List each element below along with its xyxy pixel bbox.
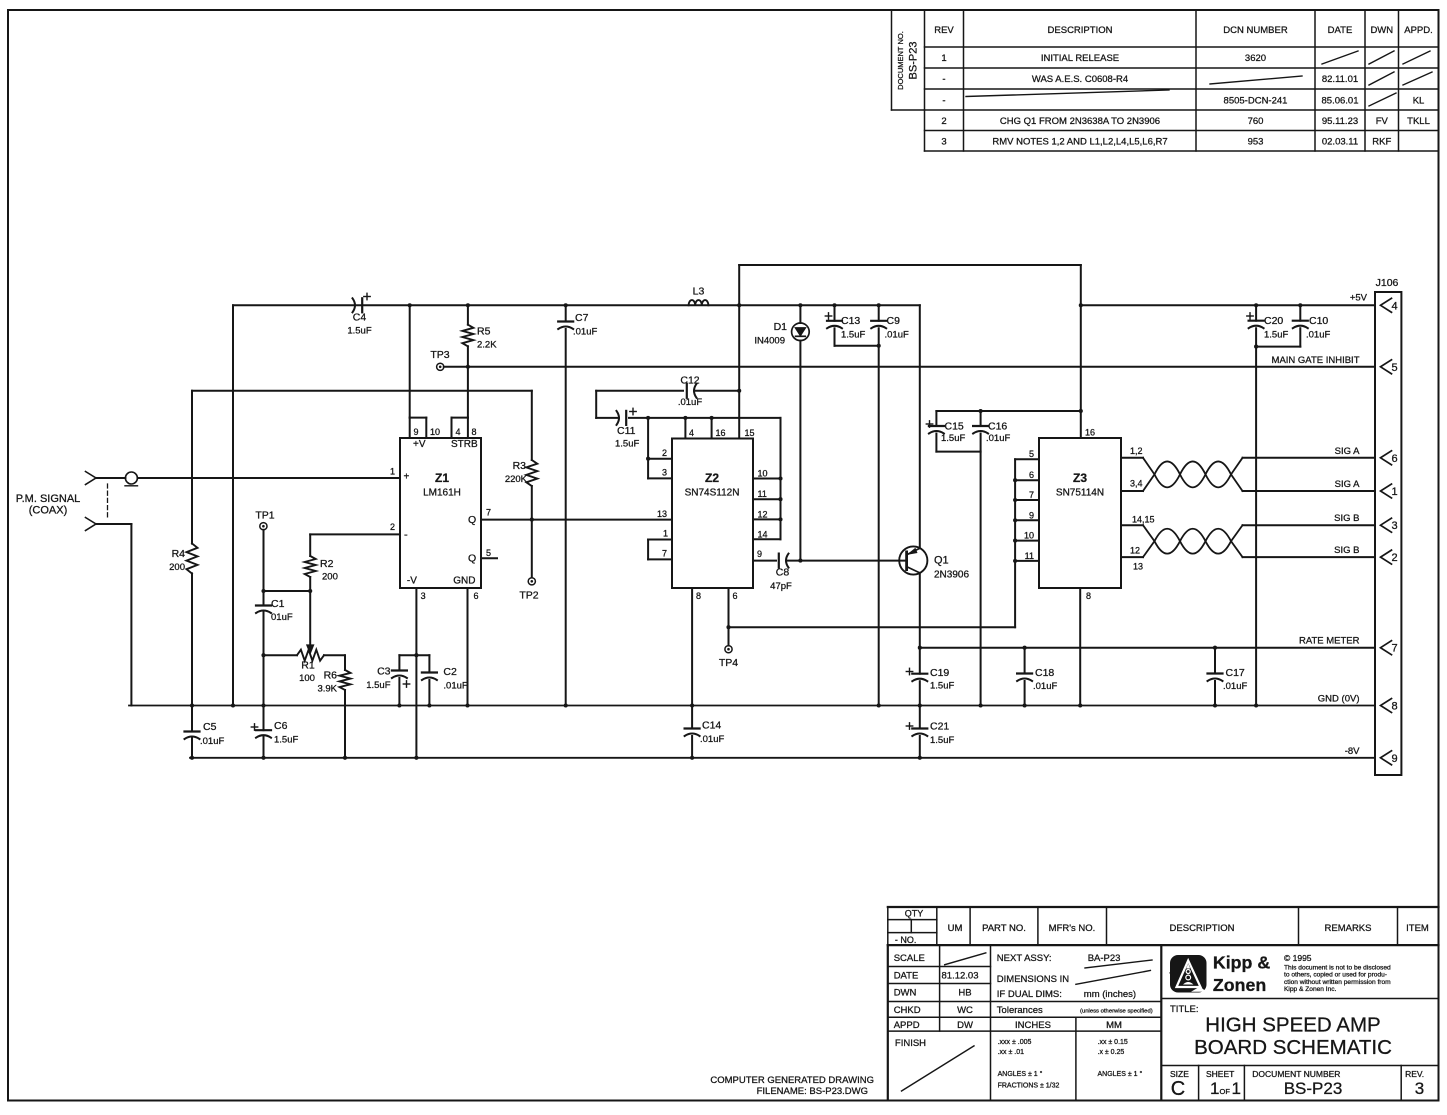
svg-text:2: 2 [390,522,395,532]
svg-text:8505-DCN-241: 8505-DCN-241 [1224,96,1288,107]
svg-text:TP1: TP1 [255,510,274,522]
svg-text:STRB: STRB [451,439,478,450]
svg-text:C5: C5 [203,721,217,733]
svg-text:-: - [942,74,945,85]
svg-text:200: 200 [322,572,338,583]
svg-text:4: 4 [1391,300,1397,312]
svg-text:2: 2 [1391,552,1397,564]
svg-text:Z2: Z2 [705,471,719,485]
svg-text:1: 1 [1210,1079,1219,1098]
svg-text:2N3906: 2N3906 [934,570,969,581]
svg-text:4: 4 [689,428,694,438]
svg-text:14,15: 14,15 [1132,515,1155,525]
svg-text:12: 12 [1130,545,1140,555]
svg-text:Zonen: Zonen [1213,975,1266,995]
svg-text:WC: WC [957,1005,973,1016]
svg-text:2: 2 [941,116,946,127]
svg-text:C: C [1171,1078,1185,1100]
svg-text:4: 4 [456,427,461,437]
svg-text:- NO.: - NO. [895,935,917,945]
svg-text:C1: C1 [271,598,285,610]
svg-text:760: 760 [1248,116,1264,127]
svg-text:1.5uF: 1.5uF [841,330,865,341]
svg-text:RKF: RKF [1372,137,1391,148]
svg-text:C3: C3 [377,666,391,678]
svg-text:1.5uF: 1.5uF [615,439,639,450]
svg-text:TITLE:: TITLE: [1170,1004,1199,1015]
svg-text:3620: 3620 [1245,53,1266,64]
svg-text:ANGLES ± 1 °: ANGLES ± 1 ° [1098,1070,1143,1078]
svg-text:.x ± 0.25: .x ± 0.25 [1098,1049,1125,1056]
svg-text:SIG A: SIG A [1335,446,1360,457]
svg-text:SIG B: SIG B [1334,545,1359,556]
svg-text:9: 9 [1391,753,1397,765]
svg-text:1: 1 [941,53,946,64]
svg-text:7: 7 [662,549,667,559]
svg-text:9: 9 [757,549,762,559]
svg-text:OF: OF [1220,1087,1231,1096]
svg-text:APPD: APPD [894,1020,920,1031]
svg-text:DWN: DWN [894,988,917,999]
svg-text:953: 953 [1248,137,1264,148]
svg-text:SCALE: SCALE [894,953,925,964]
svg-text:16: 16 [716,428,726,438]
svg-text:1.5uF: 1.5uF [274,735,298,746]
svg-text:95.11.23: 95.11.23 [1322,116,1358,127]
svg-text:RMV NOTES 1,2 AND L1,L2,L4,L5,: RMV NOTES 1,2 AND L1,L2,L4,L5,L6,R7 [992,137,1167,148]
svg-text:14: 14 [758,530,768,540]
svg-text:REMARKS: REMARKS [1325,923,1372,934]
svg-text:Z1: Z1 [435,471,449,485]
svg-text:RATE METER: RATE METER [1299,636,1360,647]
svg-text:9: 9 [414,427,419,437]
svg-text:REV: REV [934,25,954,36]
svg-text:(COAX): (COAX) [29,505,68,517]
svg-text:C7: C7 [575,312,589,324]
svg-text:C20: C20 [1264,315,1283,327]
svg-text:TP2: TP2 [519,590,538,602]
svg-text:C6: C6 [274,720,288,732]
svg-text:100: 100 [299,673,315,684]
svg-text:-: - [942,96,945,107]
svg-text:This document is not to be dis: This document is not to be disclosed [1284,964,1391,971]
svg-text:.01uF: .01uF [986,433,1010,444]
svg-text:Q: Q [468,514,476,526]
svg-text:.01uF: .01uF [200,736,224,747]
svg-text:C18: C18 [1035,667,1054,679]
svg-text:+V: +V [413,439,426,450]
svg-text:220K: 220K [505,474,528,485]
svg-text:3: 3 [1415,1079,1424,1098]
svg-text:Q: Q [468,553,476,565]
svg-text:.01uF: .01uF [678,397,702,408]
svg-text:© 1995: © 1995 [1284,953,1312,963]
svg-text:.01uF: .01uF [573,327,597,338]
svg-text:R6: R6 [324,670,338,682]
svg-text:6: 6 [474,591,479,601]
svg-text:15: 15 [745,428,755,438]
svg-text:.01uF: .01uF [1033,681,1057,692]
svg-text:ITEM: ITEM [1406,923,1429,934]
svg-text:INITIAL RELEASE: INITIAL RELEASE [1041,53,1119,64]
svg-text:.01uF: .01uF [1223,681,1247,692]
svg-text:C15: C15 [945,420,964,432]
svg-text:+5V: +5V [1350,293,1368,304]
svg-text:6: 6 [733,591,738,601]
svg-text:1.5uF: 1.5uF [366,680,390,691]
svg-text:BS-P23: BS-P23 [1284,1079,1343,1098]
svg-text:ANGLES ± 1 °: ANGLES ± 1 ° [998,1070,1043,1078]
svg-text:3: 3 [421,591,426,601]
svg-text:NEXT ASSY:: NEXT ASSY: [997,953,1052,964]
svg-text:Kipp & Zonen Inc.: Kipp & Zonen Inc. [1284,986,1337,993]
svg-text:to others, copied or used for: to others, copied or used for produ- [1284,972,1387,979]
svg-text:R5: R5 [477,326,491,338]
svg-text:81.12.03: 81.12.03 [942,971,979,982]
svg-text:8: 8 [472,427,477,437]
svg-text:.xx ± 0.15: .xx ± 0.15 [1098,1039,1128,1046]
svg-text:CHKD: CHKD [894,1005,921,1016]
svg-text:FV: FV [1376,116,1389,127]
svg-text:SN74S112N: SN74S112N [685,488,740,499]
svg-text:mm (inches): mm (inches) [1084,989,1136,1000]
svg-text:-: - [404,529,408,541]
svg-text:HIGH SPEED AMP: HIGH SPEED AMP [1205,1014,1380,1037]
svg-text:DESCRIPTION: DESCRIPTION [1048,25,1113,36]
svg-text:C2: C2 [443,666,457,678]
svg-text:MM: MM [1106,1020,1122,1031]
svg-text:13: 13 [657,509,667,519]
svg-text:GND (0V): GND (0V) [1318,694,1360,705]
svg-text:02.03.11: 02.03.11 [1322,137,1358,148]
svg-text:FRACTIONS ± 1/32: FRACTIONS ± 1/32 [998,1083,1060,1090]
svg-text:KL: KL [1413,96,1425,107]
svg-text:1.5uF: 1.5uF [930,735,954,746]
svg-text:1.5uF: 1.5uF [1264,330,1288,341]
svg-text:GND: GND [453,576,475,587]
svg-text:8: 8 [1086,591,1091,601]
svg-text:C10: C10 [1309,315,1328,327]
svg-text:3: 3 [1391,520,1397,532]
svg-text:SIG B: SIG B [1334,513,1359,524]
svg-text:.01uF: .01uF [885,330,909,341]
svg-text:J106: J106 [1376,277,1399,289]
svg-text:1.5uF: 1.5uF [347,326,371,337]
svg-text:C11: C11 [617,425,636,437]
svg-text:-V: -V [407,576,417,587]
svg-text:SN75114N: SN75114N [1056,488,1104,499]
svg-text:1.5uF: 1.5uF [930,681,954,692]
svg-text:1: 1 [390,467,395,477]
svg-text:BOARD SCHEMATIC: BOARD SCHEMATIC [1194,1036,1392,1059]
svg-text:2.2K: 2.2K [477,340,497,351]
svg-text:C13: C13 [841,315,860,327]
svg-text:5: 5 [1391,362,1397,374]
svg-text:R3: R3 [513,460,527,472]
svg-text:SIG A: SIG A [1335,479,1360,490]
svg-text:.xxx ± .005: .xxx ± .005 [998,1039,1032,1046]
svg-text:7: 7 [1391,643,1397,655]
svg-text:10: 10 [758,469,768,479]
svg-text:WAS A.E.S. C0608-R4: WAS A.E.S. C0608-R4 [1032,74,1128,85]
svg-text:85.06.01: 85.06.01 [1322,96,1359,107]
svg-text:C17: C17 [1226,667,1245,679]
svg-text:-8V: -8V [1345,746,1360,757]
svg-text:C19: C19 [930,667,949,679]
svg-text:DOCUMENT NO.: DOCUMENT NO. [896,31,905,90]
svg-text:16: 16 [1085,428,1095,438]
svg-text:11: 11 [1025,551,1034,561]
svg-text:DWN: DWN [1370,25,1393,36]
svg-text:INCHES: INCHES [1015,1020,1051,1031]
svg-text:DOCUMENT NUMBER: DOCUMENT NUMBER [1252,1069,1340,1079]
svg-text:6: 6 [1029,470,1034,480]
svg-text:DW: DW [957,1020,973,1031]
svg-text:1: 1 [1391,486,1397,498]
svg-text:Tolerances: Tolerances [997,1005,1043,1016]
svg-text:L3: L3 [693,286,705,298]
svg-text:(unless otherwise specified): (unless otherwise specified) [1080,1009,1153,1015]
svg-text:7: 7 [486,508,491,518]
svg-text:1: 1 [663,529,668,539]
svg-text:R4: R4 [172,548,186,560]
svg-text:TP3: TP3 [430,349,449,361]
svg-text:7: 7 [1029,490,1034,500]
svg-text:1,2: 1,2 [1130,446,1143,456]
svg-text:6: 6 [1391,453,1397,465]
svg-text:FILENAME: BS-P23.DWG: FILENAME: BS-P23.DWG [757,1086,868,1097]
svg-text:.01uF: .01uF [443,681,467,692]
svg-text:Kipp &: Kipp & [1213,953,1270,973]
svg-text:QTY: QTY [905,909,924,919]
svg-text:3: 3 [662,468,667,478]
svg-text:IN4009: IN4009 [754,336,785,347]
svg-text:REV.: REV. [1405,1069,1424,1079]
svg-text:12: 12 [758,510,768,520]
svg-text:3.9K: 3.9K [317,684,337,695]
svg-text:.01uF: .01uF [1306,330,1330,341]
svg-text:.xx ± .01: .xx ± .01 [998,1049,1025,1056]
svg-text:1: 1 [1232,1079,1241,1098]
svg-text:MFR's NO.: MFR's NO. [1049,923,1096,934]
svg-text:TKLL: TKLL [1407,116,1430,127]
svg-text:R2: R2 [320,558,334,570]
svg-text:TP4: TP4 [719,657,738,669]
svg-text:DIMENSIONS IN: DIMENSIONS IN [997,974,1069,985]
svg-text:C4: C4 [353,312,367,324]
svg-text:PART NO.: PART NO. [982,923,1026,934]
svg-text:C16: C16 [988,420,1007,432]
svg-text:R1: R1 [301,660,315,672]
svg-text:C12: C12 [680,375,699,387]
svg-text:ction without written permissi: ction without written permission from [1284,979,1391,986]
svg-text:DESCRIPTION: DESCRIPTION [1170,923,1235,934]
svg-text:SHEET: SHEET [1206,1069,1234,1079]
svg-text:D1: D1 [774,321,788,333]
svg-text:3: 3 [941,137,946,148]
svg-text:BS-P23: BS-P23 [908,42,920,80]
svg-text:5: 5 [486,548,491,558]
svg-text:01uF: 01uF [271,612,293,623]
svg-text:DATE: DATE [1328,25,1353,36]
svg-text:13: 13 [1133,562,1143,572]
svg-text:DATE: DATE [894,971,919,982]
svg-text:P.M. SIGNAL: P.M. SIGNAL [16,493,81,505]
svg-text:C21: C21 [930,721,949,733]
svg-text:10: 10 [430,427,440,437]
svg-text:DCN NUMBER: DCN NUMBER [1223,25,1288,36]
svg-text:HB: HB [958,988,971,999]
svg-text:UM: UM [948,923,963,934]
svg-text:CHG Q1 FROM 2N3638A TO 2N3906: CHG Q1 FROM 2N3638A TO 2N3906 [1000,116,1160,127]
svg-text:COMPUTER GENERATED DRAWING: COMPUTER GENERATED DRAWING [710,1075,874,1086]
svg-text:BA-P23: BA-P23 [1088,953,1121,964]
svg-text:+: + [404,472,410,483]
svg-text:82.11.01: 82.11.01 [1322,74,1358,85]
svg-text:47pF: 47pF [770,581,792,592]
svg-text:APPD.: APPD. [1404,25,1433,36]
svg-text:.01uF: .01uF [700,734,724,745]
svg-text:IF DUAL DIMS:: IF DUAL DIMS: [997,989,1062,1000]
svg-text:9: 9 [1029,510,1034,520]
svg-text:5: 5 [1029,449,1034,459]
svg-text:MAIN GATE INHIBIT: MAIN GATE INHIBIT [1272,355,1360,366]
svg-text:C8: C8 [776,567,790,579]
svg-text:C9: C9 [887,315,901,327]
svg-text:LM161H: LM161H [423,488,461,499]
svg-text:8: 8 [1391,701,1397,713]
svg-text:FINISH: FINISH [895,1038,926,1049]
svg-text:10: 10 [1024,531,1034,541]
svg-text:2: 2 [662,448,667,458]
svg-text:3,4: 3,4 [1130,479,1143,489]
svg-text:200: 200 [169,562,185,573]
svg-text:11: 11 [758,489,767,499]
svg-text:8: 8 [696,591,701,601]
svg-text:Q1: Q1 [934,555,949,567]
svg-text:C14: C14 [702,720,721,732]
svg-text:1.5uF: 1.5uF [941,433,965,444]
svg-text:Z3: Z3 [1073,471,1087,485]
